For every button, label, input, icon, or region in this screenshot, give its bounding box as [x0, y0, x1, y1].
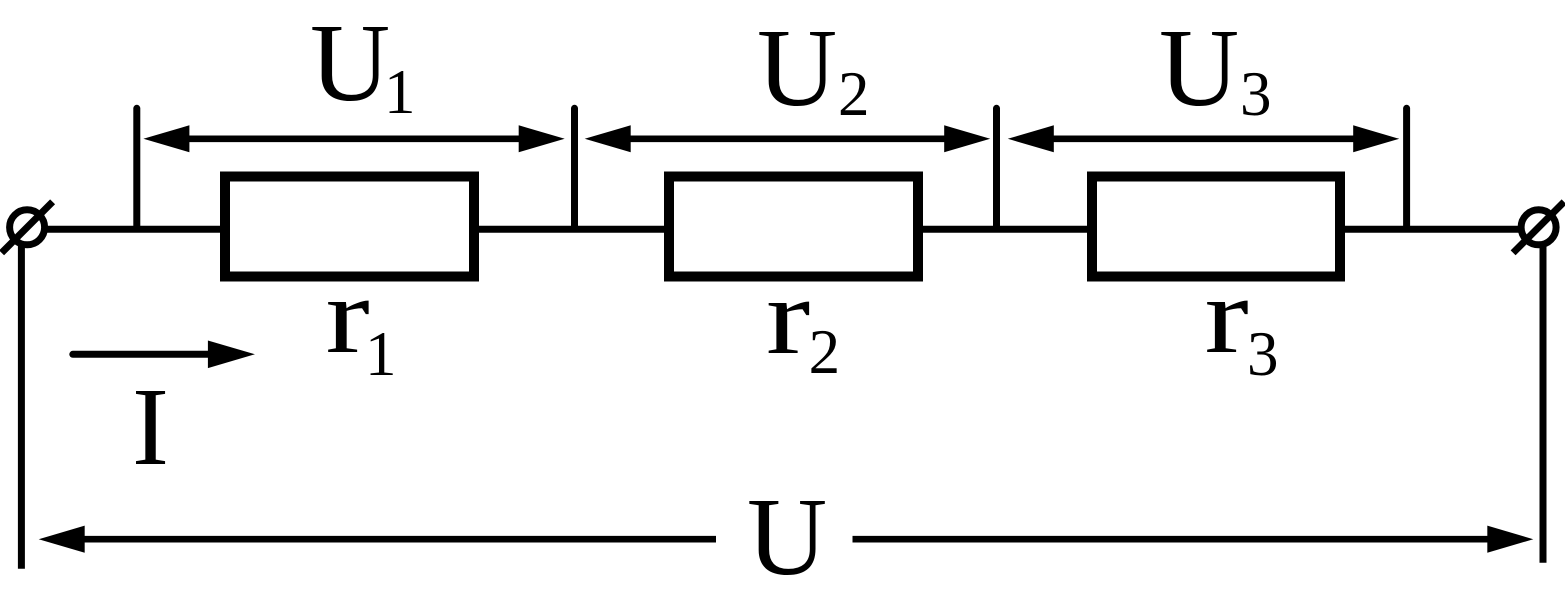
- svg-text:3: 3: [1240, 59, 1272, 129]
- svg-text:U: U: [747, 476, 827, 599]
- svg-text:1: 1: [384, 57, 416, 127]
- svg-text:r: r: [766, 257, 810, 377]
- svg-text:1: 1: [365, 319, 397, 389]
- svg-text:2: 2: [809, 317, 841, 387]
- svg-text:U: U: [757, 7, 837, 130]
- svg-text:U: U: [1159, 7, 1239, 130]
- svg-text:2: 2: [838, 59, 870, 129]
- svg-text:U: U: [310, 2, 390, 125]
- svg-text:I: I: [132, 366, 169, 489]
- svg-text:3: 3: [1247, 319, 1279, 389]
- svg-text:r: r: [326, 256, 370, 376]
- svg-text:r: r: [1205, 256, 1249, 376]
